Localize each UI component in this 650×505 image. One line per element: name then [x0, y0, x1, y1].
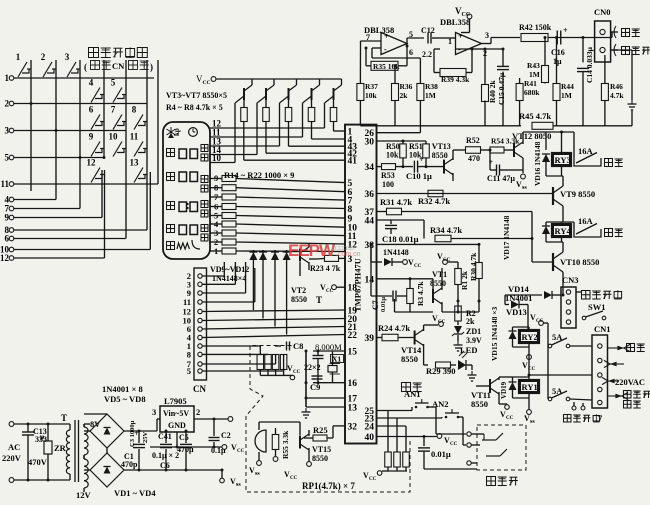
svg-text:R3 4.7k: R3 4.7k	[416, 281, 425, 306]
svg-text:kp: kp	[173, 128, 181, 136]
svg-text:L7905: L7905	[164, 396, 187, 406]
svg-text:VT10 8550: VT10 8550	[560, 257, 599, 267]
svg-text:12: 12	[0, 253, 10, 263]
svg-text:VD19: VD19	[500, 381, 508, 399]
svg-text:R45 4.7k: R45 4.7k	[519, 111, 551, 121]
svg-text:3: 3	[65, 52, 70, 62]
svg-text:C16: C16	[551, 48, 565, 57]
svg-text:C11 47μ: C11 47μ	[487, 174, 515, 183]
svg-text:+: +	[563, 26, 568, 35]
svg-text:12: 12	[87, 158, 97, 168]
svg-text:CC: CC	[290, 476, 298, 481]
svg-text:VT2: VT2	[291, 286, 306, 295]
svg-text:10: 10	[109, 132, 119, 142]
svg-text:CC: CC	[326, 289, 334, 294]
svg-text:C6: C6	[160, 461, 170, 470]
svg-text:4: 4	[89, 78, 94, 88]
svg-text:T: T	[61, 413, 67, 423]
svg-text:8: 8	[348, 205, 353, 215]
svg-text:3: 3	[152, 407, 156, 417]
svg-text:11: 11	[0, 179, 9, 189]
svg-text:R53: R53	[381, 171, 395, 180]
svg-text:RY1: RY1	[522, 382, 538, 392]
svg-text:CC: CC	[203, 80, 211, 86]
svg-text:R1 2k: R1 2k	[460, 270, 469, 290]
svg-text:1M: 1M	[529, 70, 540, 79]
svg-text:5: 5	[111, 78, 116, 88]
svg-text:+: +	[384, 32, 389, 41]
svg-text:36: 36	[365, 190, 375, 200]
svg-text:+: +	[458, 32, 463, 41]
svg-text:38: 38	[365, 241, 375, 251]
svg-text:11: 11	[183, 297, 191, 307]
svg-text:R29 390: R29 390	[426, 366, 456, 376]
svg-text:40: 40	[365, 433, 375, 443]
svg-text:5: 5	[187, 366, 191, 376]
svg-text:1: 1	[16, 52, 21, 62]
svg-text:470p: 470p	[121, 460, 138, 469]
svg-text:ss: ss	[522, 185, 527, 191]
svg-text:VT15: VT15	[312, 445, 331, 454]
svg-text:7: 7	[111, 105, 116, 115]
svg-text:C15 0.47μ: C15 0.47μ	[497, 72, 506, 105]
svg-text:16A: 16A	[578, 216, 594, 226]
svg-text:3.9V: 3.9V	[466, 336, 482, 345]
svg-text:8550: 8550	[312, 454, 328, 463]
svg-text:ZR: ZR	[54, 443, 67, 453]
svg-text:39: 39	[365, 334, 375, 344]
svg-text:0.01μ: 0.01μ	[380, 297, 387, 312]
svg-text:1M: 1M	[425, 91, 436, 100]
svg-text:14: 14	[365, 275, 375, 285]
svg-text:10: 10	[212, 153, 222, 163]
svg-text:0.1μ × 2: 0.1μ × 2	[152, 451, 179, 460]
svg-text:100: 100	[382, 180, 394, 189]
svg-text:RY3: RY3	[555, 155, 571, 165]
svg-text:8550: 8550	[432, 151, 448, 160]
svg-text:4.7k: 4.7k	[610, 91, 624, 100]
svg-text:T: T	[316, 295, 322, 305]
svg-text:R55 3.3k: R55 3.3k	[281, 430, 290, 459]
svg-text:8550: 8550	[401, 354, 418, 364]
svg-text:μ: μ	[40, 433, 44, 441]
svg-text:44: 44	[365, 217, 375, 227]
svg-text:32: 32	[348, 422, 358, 432]
svg-text:VT1: VT1	[432, 270, 447, 279]
svg-text:470V: 470V	[28, 457, 48, 467]
svg-text:6: 6	[89, 105, 94, 115]
svg-text:C41: C41	[158, 432, 172, 441]
svg-text:CN1: CN1	[594, 324, 611, 334]
svg-text:C5: C5	[179, 433, 189, 442]
svg-text:CN: CN	[112, 61, 125, 71]
svg-text:CC: CC	[414, 264, 422, 269]
svg-text:.com.cn: .com.cn	[336, 251, 361, 258]
svg-text:ss: ss	[236, 482, 241, 488]
svg-text:ZD1: ZD1	[466, 327, 481, 336]
svg-text:CN0: CN0	[594, 7, 611, 17]
svg-text:25V: 25V	[142, 432, 149, 444]
svg-text:R4 ~ R8 4.7k × 5: R4 ~ R8 4.7k × 5	[166, 103, 223, 112]
svg-text:C7: C7	[371, 300, 380, 310]
svg-text:CN: CN	[193, 384, 206, 394]
svg-text:C18 0.01μ: C18 0.01μ	[382, 234, 419, 244]
svg-text:10k: 10k	[386, 151, 399, 160]
svg-text:VD16 1N4148: VD16 1N4148	[533, 141, 542, 186]
svg-text:680k: 680k	[524, 88, 540, 97]
svg-text:16: 16	[348, 379, 358, 389]
svg-text:R37: R37	[365, 82, 378, 91]
svg-text:R39 4.3k: R39 4.3k	[441, 75, 470, 84]
svg-text:CC: CC	[450, 442, 458, 447]
svg-text:VD13: VD13	[506, 307, 527, 317]
svg-text:VD1 ~ VD4: VD1 ~ VD4	[114, 488, 156, 498]
svg-text:+: +	[419, 155, 424, 164]
svg-text:VD17 1N4148: VD17 1N4148	[502, 215, 511, 260]
svg-text:ss: ss	[255, 471, 260, 477]
svg-text:220V: 220V	[2, 453, 22, 463]
svg-text:2: 2	[41, 52, 46, 62]
svg-text:VD9~VD12: VD9~VD12	[210, 265, 249, 274]
svg-text:RP1(4.7k) × 7: RP1(4.7k) × 7	[302, 481, 355, 491]
svg-text:34: 34	[365, 163, 375, 173]
svg-text:VD15 1N4148 ×3: VD15 1N4148 ×3	[490, 306, 499, 361]
svg-text:10k: 10k	[365, 91, 378, 100]
svg-text:5A: 5A	[552, 386, 563, 396]
svg-text:VT13: VT13	[432, 142, 451, 151]
svg-text:470μ: 470μ	[177, 445, 194, 454]
svg-text:6: 6	[409, 48, 413, 57]
svg-text:CC: CC	[369, 477, 377, 482]
svg-text:R43: R43	[527, 61, 540, 70]
svg-text:LED: LED	[460, 345, 477, 355]
svg-text:R30 4.7k: R30 4.7k	[469, 252, 478, 281]
svg-text:11: 11	[130, 132, 139, 142]
svg-text:24: 24	[365, 423, 375, 433]
svg-text:RY2: RY2	[522, 332, 538, 342]
svg-text:R34 4.7k: R34 4.7k	[430, 225, 462, 235]
svg-text:R42 150k: R42 150k	[519, 23, 552, 32]
svg-text:CC: CC	[506, 416, 514, 421]
svg-text:8550: 8550	[291, 295, 307, 304]
svg-text:0.01μ: 0.01μ	[431, 449, 451, 459]
svg-text:15: 15	[348, 348, 358, 358]
svg-text:2.2: 2.2	[422, 50, 432, 59]
svg-text:C2: C2	[221, 431, 231, 440]
svg-text:R46: R46	[610, 82, 623, 91]
svg-text:2k: 2k	[466, 317, 475, 326]
svg-text:GND: GND	[168, 421, 186, 430]
svg-text:8: 8	[187, 349, 191, 359]
svg-text:1N4148: 1N4148	[383, 248, 409, 257]
svg-text:CC: CC	[293, 370, 301, 375]
svg-text:SW1: SW1	[588, 302, 605, 312]
svg-text:13: 13	[130, 158, 140, 168]
svg-text:R52: R52	[466, 136, 480, 145]
svg-text:13: 13	[348, 404, 358, 414]
svg-text:C10 1μ: C10 1μ	[406, 171, 432, 181]
svg-text:1N4001 × 8: 1N4001 × 8	[102, 384, 143, 394]
svg-text:RY4: RY4	[555, 226, 572, 236]
svg-text:18: 18	[348, 284, 358, 294]
svg-text:AN1: AN1	[404, 389, 421, 399]
svg-text:R40 2k: R40 2k	[488, 79, 497, 103]
svg-text:3: 3	[485, 31, 489, 40]
svg-text:1M: 1M	[561, 91, 572, 100]
svg-text:R44: R44	[561, 82, 574, 91]
svg-text:X1: X1	[332, 355, 341, 364]
svg-text:CC: CC	[237, 449, 245, 454]
svg-text:R23 4 7k: R23 4 7k	[310, 264, 341, 273]
svg-text:9: 9	[89, 132, 94, 142]
svg-text:R31 4.7k: R31 4.7k	[380, 197, 412, 207]
svg-text:CN3: CN3	[562, 275, 579, 285]
svg-text:220VAC: 220VAC	[615, 377, 645, 387]
svg-text:R41: R41	[524, 79, 537, 88]
svg-text:8550: 8550	[471, 399, 488, 409]
svg-text:ss: ss	[530, 419, 535, 425]
svg-text:1μ: 1μ	[553, 57, 562, 66]
svg-text:22: 22	[348, 331, 358, 341]
svg-text:R38: R38	[425, 82, 438, 91]
svg-text:8: 8	[132, 105, 137, 115]
svg-text:470: 470	[468, 154, 480, 163]
svg-text:12V: 12V	[76, 490, 92, 500]
svg-text:C8: C8	[293, 341, 303, 351]
svg-text:DBL358: DBL358	[440, 17, 470, 27]
svg-text:C12: C12	[421, 26, 435, 35]
svg-text:): )	[150, 62, 153, 72]
svg-text:VT3~VT7 8550×5: VT3~VT7 8550×5	[166, 91, 227, 100]
svg-text:AC: AC	[8, 442, 20, 452]
svg-text:-: -	[384, 45, 387, 54]
svg-text:EEPW: EEPW	[288, 241, 336, 260]
svg-text:8V: 8V	[90, 419, 101, 429]
svg-text:2: 2	[196, 407, 200, 417]
svg-text:R36: R36	[400, 82, 413, 91]
svg-text:R32 4.7k: R32 4.7k	[418, 196, 450, 206]
svg-text:CC: CC	[536, 319, 544, 324]
svg-text:41: 41	[348, 157, 358, 167]
svg-text:(: (	[84, 62, 87, 72]
svg-text:2k: 2k	[400, 91, 409, 100]
svg-text:VD5 ~ VD8: VD5 ~ VD8	[104, 394, 146, 404]
svg-text:30: 30	[365, 138, 375, 148]
svg-text:CC: CC	[438, 320, 446, 325]
svg-text:Vin~5V: Vin~5V	[163, 409, 189, 418]
svg-text:R25: R25	[313, 425, 328, 435]
svg-text:R24 4.7k: R24 4.7k	[378, 323, 410, 333]
svg-text:8550: 8550	[430, 279, 446, 288]
svg-text:C14 0.033μ: C14 0.033μ	[585, 46, 594, 83]
svg-text:VT9 8550: VT9 8550	[560, 189, 595, 199]
svg-text:16A: 16A	[578, 146, 594, 156]
